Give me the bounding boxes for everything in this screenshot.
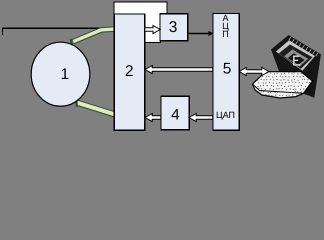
svg-text:5: 5 bbox=[223, 61, 232, 78]
svg-text:1: 1 bbox=[60, 66, 69, 83]
svg-text:ЦАП: ЦАП bbox=[216, 110, 235, 120]
svg-text:3: 3 bbox=[169, 19, 178, 36]
svg-text:2: 2 bbox=[125, 63, 134, 80]
svg-text:4: 4 bbox=[171, 106, 180, 123]
svg-text:П: П bbox=[222, 29, 228, 39]
